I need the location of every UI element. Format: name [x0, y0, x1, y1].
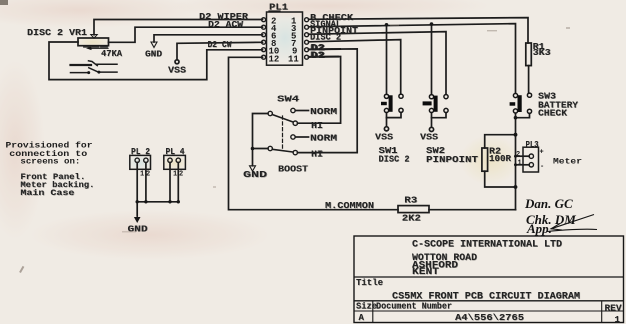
svg-text:HI: HI [311, 121, 323, 131]
svg-text:GND: GND [243, 170, 268, 180]
svg-text:R3: R3 [404, 196, 417, 206]
svg-text:Meter: Meter [553, 156, 582, 166]
svg-text:DISC 2: DISC 2 [310, 33, 341, 43]
svg-text:VSS: VSS [420, 132, 439, 142]
svg-text:2: 2 [516, 151, 520, 159]
svg-text:screens on:: screens on: [20, 157, 80, 167]
svg-text:1: 1 [518, 159, 522, 167]
svg-text:C-SCOPE INTERNATIONAL LTD: C-SCOPE INTERNATIONAL LTD [412, 240, 562, 251]
svg-text:Size: Size [356, 302, 377, 312]
svg-text:Title: Title [356, 278, 383, 288]
svg-text:GND: GND [145, 49, 163, 59]
svg-text:3K3: 3K3 [533, 48, 551, 58]
svg-text:NORM: NORM [310, 107, 337, 117]
svg-text:A: A [359, 313, 365, 323]
svg-text:NORM: NORM [310, 134, 337, 144]
svg-text:CHECK: CHECK [538, 109, 568, 119]
svg-text:-: - [540, 163, 544, 171]
svg-text:D2: D2 [311, 50, 325, 60]
svg-text:PL1: PL1 [269, 3, 289, 13]
svg-text:47KA: 47KA [101, 49, 123, 59]
svg-text:BOOST: BOOST [278, 164, 309, 174]
svg-text:12: 12 [269, 54, 280, 64]
svg-text:2K2: 2K2 [402, 214, 421, 224]
svg-text:PINPOINT: PINPOINT [426, 155, 479, 165]
svg-text:SW4: SW4 [277, 94, 300, 104]
svg-text:A4\556\2765: A4\556\2765 [455, 313, 524, 323]
svg-text:1: 1 [140, 170, 144, 178]
svg-text:M.COMMON: M.COMMON [325, 201, 374, 211]
svg-text:1: 1 [615, 315, 621, 324]
svg-text:KENT: KENT [412, 267, 439, 278]
svg-text:2: 2 [179, 170, 183, 178]
svg-text:1: 1 [173, 170, 177, 178]
svg-text:PL3: PL3 [526, 140, 539, 150]
svg-text:HI: HI [311, 150, 323, 160]
svg-text:PL 2: PL 2 [131, 147, 150, 157]
svg-text:DISC 2: DISC 2 [379, 155, 410, 165]
svg-text:D2 CW: D2 CW [208, 40, 233, 50]
svg-text:GND: GND [128, 224, 149, 234]
svg-text:App.: App. [526, 221, 552, 236]
svg-text:REV: REV [605, 304, 623, 314]
svg-text:VSS: VSS [168, 66, 187, 76]
svg-text:2: 2 [146, 170, 150, 178]
svg-text:DISC 2 VR1: DISC 2 VR1 [27, 28, 88, 38]
svg-text:VSS: VSS [375, 132, 394, 142]
svg-text:Dan. GC: Dan. GC [524, 196, 573, 211]
svg-text:100R: 100R [489, 154, 512, 164]
svg-text:11: 11 [288, 54, 299, 64]
svg-text:PL 4: PL 4 [166, 147, 186, 157]
svg-text:Main Case: Main Case [20, 188, 74, 198]
svg-text:D2 ACW: D2 ACW [208, 20, 244, 30]
svg-text:Document Number: Document Number [376, 302, 452, 312]
svg-text:+: + [540, 148, 544, 156]
